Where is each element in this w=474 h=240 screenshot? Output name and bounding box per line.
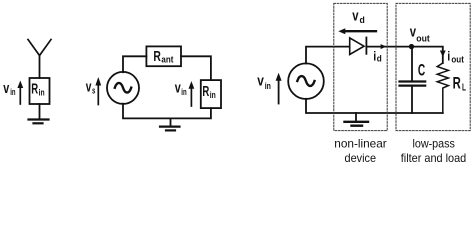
svg-text:out: out (416, 33, 430, 43)
source Vin (right) (288, 63, 324, 99)
label Rin (left) (31, 81, 44, 98)
svg-text:ant: ant (161, 55, 173, 65)
svg-text:v: v (257, 72, 264, 89)
arrow v_s (97, 84, 99, 105)
svg-text:non-linear: non-linear (334, 136, 387, 150)
svg-text:i: i (447, 48, 450, 63)
label Rin (middle) (202, 83, 215, 100)
ground (middle) (160, 125, 180, 127)
resistor Rin (left) (30, 78, 50, 104)
label C (418, 62, 425, 80)
arrow v_in (right) (278, 79, 280, 104)
wire bottom (middle circuit) (123, 104, 211, 119)
svg-text:R: R (153, 48, 161, 65)
caption low-pass filter and load (401, 136, 467, 165)
wire Rin to ground (39, 104, 41, 119)
label v_s (86, 79, 96, 96)
svg-text:in: in (10, 87, 15, 97)
svg-text:C: C (418, 62, 425, 80)
wire node to RL branch (412, 47, 443, 63)
svg-text:device: device (345, 151, 377, 165)
label v_in (left) (3, 80, 15, 97)
svg-text:in: in (39, 87, 45, 97)
svg-text:filter and load: filter and load (401, 151, 467, 165)
wire source top to Rant (123, 56, 146, 72)
label v_in (middle) (175, 79, 187, 97)
resistor RL (437, 63, 448, 113)
svg-text:R: R (453, 73, 461, 92)
wire source top to diode (306, 47, 350, 64)
svg-text:L: L (462, 83, 466, 94)
capacitor C (411, 47, 413, 81)
label v_in (right) (257, 72, 271, 90)
dashed box low-pass filter and load (396, 3, 470, 130)
svg-text:d: d (377, 54, 382, 64)
wire antenna stem (39, 55, 41, 78)
label v_out (410, 24, 430, 44)
arrow i_out (440, 51, 446, 58)
svg-text:s: s (92, 86, 95, 96)
wire bottom (right circuit) (306, 99, 443, 113)
svg-text:in: in (210, 90, 216, 100)
resistor Rin (middle) (201, 80, 221, 108)
wire Rant to Rin (middle) (181, 56, 211, 80)
svg-text:v: v (86, 79, 92, 96)
svg-text:in: in (181, 87, 186, 97)
svg-text:v: v (3, 80, 9, 97)
arrow v_in (middle) (190, 86, 192, 106)
label i_d (373, 48, 382, 63)
ground (left) (29, 118, 49, 120)
arrow i_d (381, 44, 387, 49)
wire ground stub (middle) (170, 118, 172, 126)
diode D1 (350, 38, 364, 55)
svg-text:v: v (352, 7, 359, 24)
svg-text:d: d (360, 15, 365, 25)
label RL (453, 73, 466, 93)
svg-text:low-pass: low-pass (412, 136, 455, 150)
svg-text:R: R (202, 83, 209, 100)
caption non-linear device (334, 136, 387, 165)
wire diode to node (366, 46, 411, 48)
svg-text:v: v (175, 79, 181, 96)
svg-text:in: in (265, 81, 271, 91)
svg-text:out: out (451, 54, 464, 64)
node v_out (409, 44, 414, 49)
label i_out (447, 48, 464, 64)
antenna (28, 40, 51, 56)
resistor Rant (146, 46, 181, 66)
arrow v_in (left) (19, 85, 21, 104)
ground (right) (345, 121, 369, 123)
source Vs (107, 72, 139, 104)
svg-text:R: R (31, 81, 38, 98)
wire ground stub (right) (355, 113, 357, 121)
label v_d (352, 7, 365, 25)
arrow v_d (344, 30, 377, 32)
dashed box non-linear device (334, 3, 387, 130)
label Rant (153, 48, 173, 65)
